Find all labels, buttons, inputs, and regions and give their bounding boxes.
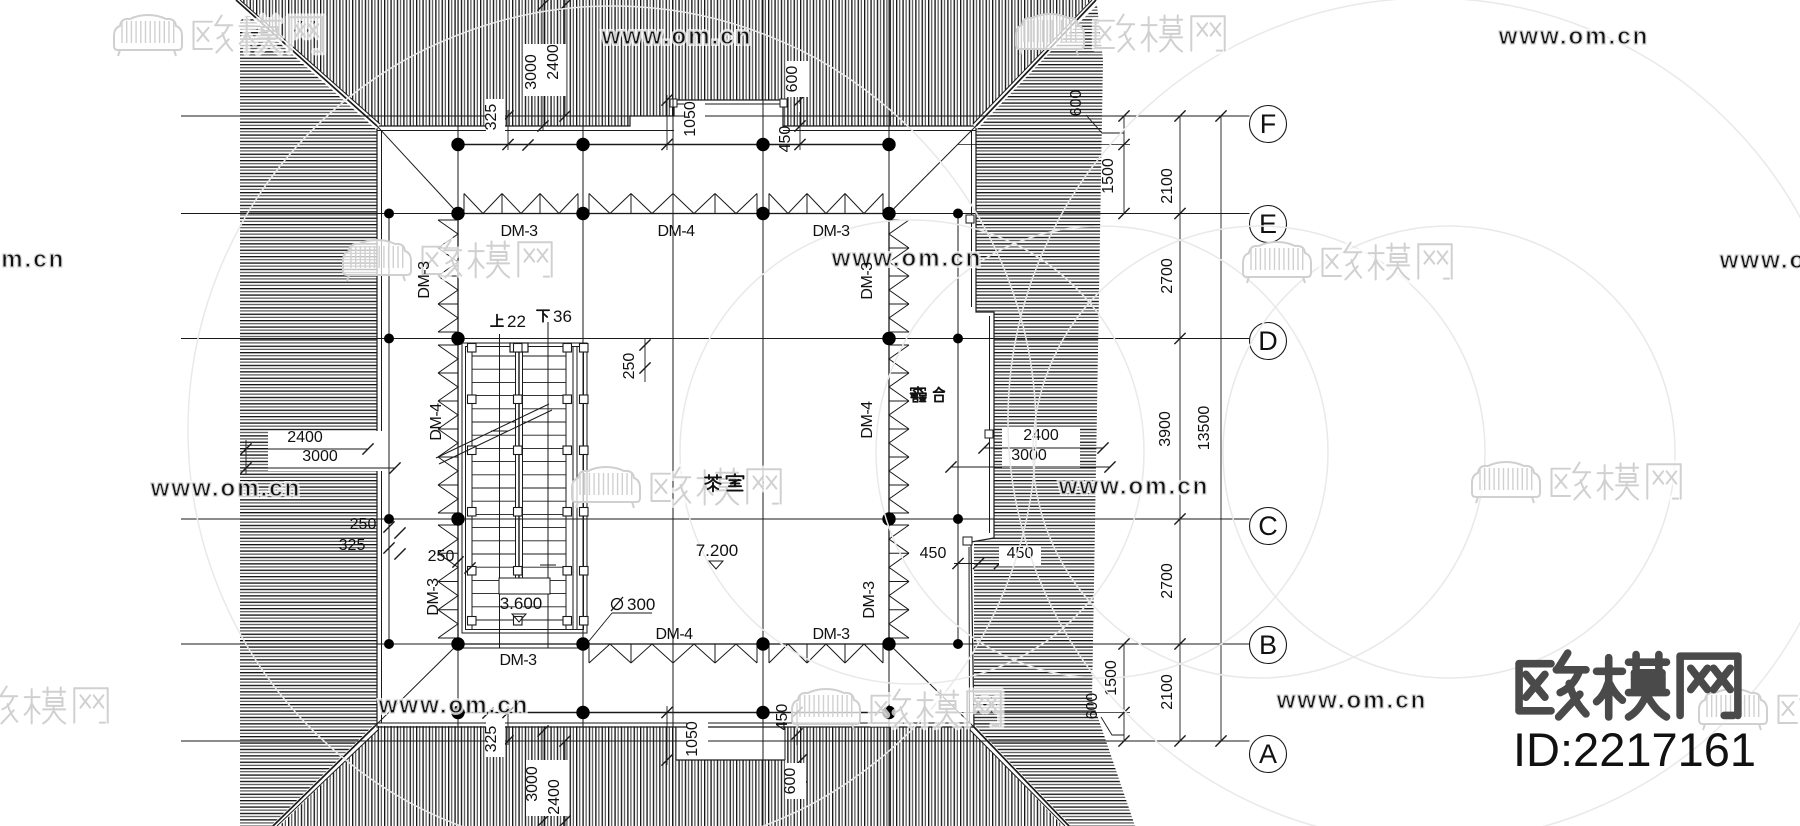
roof left band hatch (240, 13, 377, 826)
svg-text:2100: 2100 (1159, 674, 1176, 710)
svg-text:DM-4: DM-4 (655, 626, 693, 643)
top 600 dim (799, 68, 801, 104)
svg-text:2700: 2700 (1159, 563, 1176, 599)
svg-text:www.om.cn: www.om.cn (1498, 23, 1649, 50)
svg-text:www.om.cn: www.om.cn (150, 475, 301, 502)
svg-text:www.om.cn: www.om.cn (1276, 687, 1427, 714)
svg-text:DM-4: DM-4 (657, 223, 695, 240)
svg-text:D: D (1258, 326, 1278, 356)
DM-3 door top-right (768, 194, 770, 214)
svg-text:3900: 3900 (1157, 411, 1174, 447)
svg-text:3000: 3000 (302, 448, 338, 465)
DM-3 door bottom-right (768, 644, 770, 663)
svg-text:600: 600 (782, 768, 799, 795)
horizontal grid lines F E D C B A (181, 115, 1250, 117)
hip top-right (975, 0, 1095, 127)
dim chain 2 (1179, 116, 1181, 741)
top 3000/2400 dims (542, 0, 544, 131)
svg-text:2400: 2400 (287, 429, 323, 446)
svg-text:DM-4: DM-4 (428, 403, 445, 441)
bottom 450 dim (796, 703, 798, 745)
vertical grid lines (457, 0, 459, 826)
DM-3 door left C-B (438, 524, 458, 526)
svg-text:250: 250 (621, 353, 638, 380)
stair break line (436, 404, 549, 458)
DM-4 door bottom-mid (588, 644, 590, 663)
terrace top rail (458, 144, 889, 146)
top eave double line with notch (377, 100, 976, 126)
svg-text:325: 325 (483, 726, 500, 753)
bottom 600 dim (800, 755, 802, 792)
stair center wall (515, 352, 517, 578)
svg-text:DM-3: DM-3 (499, 652, 537, 669)
wall extension lines to dim chain (958, 144, 1130, 146)
250 dim above stair (644, 339, 646, 382)
svg-text:DM-3: DM-3 (812, 626, 850, 643)
DM-3 door right C-B (889, 524, 909, 526)
right eave stepped double line (971, 126, 994, 727)
svg-text:E: E (1259, 209, 1277, 239)
terrace bottom rail (458, 712, 889, 714)
dim chain 3 overall (1220, 116, 1222, 741)
svg-text:B: B (1259, 630, 1277, 660)
svg-text:DM-3: DM-3 (859, 262, 876, 300)
svg-text:450: 450 (920, 545, 947, 562)
left 2400/3000 dims (268, 431, 382, 471)
svg-text:DM-3: DM-3 (416, 261, 433, 299)
stair down arrow (547, 322, 549, 648)
svg-text:ID:2217161: ID:2217161 (1513, 723, 1756, 776)
column dots (384, 138, 963, 719)
svg-text:600: 600 (784, 66, 801, 93)
dim chain 1 (1123, 116, 1125, 214)
svg-text:www.om.cn: www.om.cn (831, 245, 982, 272)
top 450 dim (799, 112, 801, 150)
svg-text:DM-3: DM-3 (425, 578, 442, 616)
roof top band hatch (236, 0, 1096, 126)
svg-text:www.om.cn: www.om.cn (0, 246, 65, 273)
svg-text:A: A (1259, 739, 1277, 769)
hip bottom-right (973, 728, 1067, 826)
svg-text:www.om.cn: www.om.cn (1719, 247, 1800, 274)
svg-text:300: 300 (627, 595, 655, 614)
svg-text:2700: 2700 (1159, 258, 1176, 294)
svg-text:22: 22 (507, 312, 526, 331)
DM-4 door left D-C (438, 344, 458, 346)
hip top-left (236, 0, 378, 127)
top 325 dim (507, 110, 509, 150)
roof bottom band hatch (273, 726, 1069, 826)
svg-text:3000: 3000 (524, 766, 541, 802)
svg-text:2400: 2400 (1023, 427, 1059, 444)
stair label 上22 (491, 315, 503, 327)
svg-text:1050: 1050 (684, 721, 701, 757)
svg-text:DM-3: DM-3 (812, 223, 850, 240)
stair up arrow (499, 334, 501, 648)
right 2400/3000 dims (1002, 428, 1080, 468)
svg-text:DM-3: DM-3 (861, 581, 878, 619)
svg-text:13500: 13500 (1196, 406, 1213, 451)
svg-text:3.600: 3.600 (500, 594, 543, 613)
terrace colonnade lines (388, 214, 390, 645)
brand logo 欧模网 (1519, 653, 1586, 717)
roof right band hatch (974, 5, 1135, 826)
bottom wall inner line (stair segment) (458, 647, 583, 649)
svg-text:325: 325 (339, 537, 366, 554)
svg-text:250: 250 (350, 516, 377, 533)
svg-text:2100: 2100 (1159, 168, 1176, 204)
svg-text:600: 600 (1084, 693, 1101, 720)
DM-3 door top-left (463, 194, 465, 214)
bottom 1050 dim (666, 706, 668, 765)
DM-4 door right D-C (889, 344, 909, 346)
svg-text:C: C (1258, 511, 1278, 541)
svg-text:2400: 2400 (546, 779, 563, 815)
watermark logos (114, 15, 182, 56)
svg-text:450: 450 (777, 126, 794, 153)
bottom 325 dim (507, 706, 509, 745)
left eave double line (376, 126, 378, 726)
svg-text:450: 450 (774, 704, 791, 731)
svg-text:2400: 2400 (545, 44, 562, 80)
DM-3 door left E-D (438, 219, 458, 221)
svg-text:www.om.cn: www.om.cn (601, 23, 752, 50)
svg-text:1500: 1500 (1100, 158, 1117, 194)
stair treads (472, 356, 566, 620)
hip bottom-left (275, 727, 376, 826)
stair bottom landing (499, 578, 550, 594)
svg-text:7.200: 7.200 (696, 541, 739, 560)
svg-text:250: 250 (428, 548, 455, 565)
svg-text:DM-4: DM-4 (859, 401, 876, 439)
svg-text:325: 325 (483, 104, 500, 131)
svg-text:1050: 1050 (682, 101, 699, 137)
stair posts (468, 344, 589, 626)
stair enclosure (462, 343, 587, 633)
top 1050 dim (666, 95, 668, 150)
svg-text:36: 36 (553, 307, 572, 326)
DM-3 door right E-D (889, 219, 909, 221)
bottom eave double line (375, 726, 974, 728)
column dia leader (589, 613, 612, 641)
stair label 下36 (537, 310, 549, 322)
svg-text:3000: 3000 (523, 54, 540, 90)
grid bubbles (1250, 106, 1287, 143)
room wall rectangle (458, 214, 889, 645)
stair stringers (471, 347, 473, 629)
svg-text:DM-3: DM-3 (500, 223, 538, 240)
DM-4 door top-mid (588, 194, 590, 214)
room label 茶室 (705, 475, 721, 491)
svg-text:www.om.cn: www.om.cn (378, 692, 529, 719)
svg-text:3000: 3000 (1011, 447, 1047, 464)
svg-text:600: 600 (1068, 90, 1085, 117)
svg-text:F: F (1260, 109, 1277, 139)
svg-text:www.om.cn: www.om.cn (1058, 473, 1209, 500)
terrace label 露台 (910, 387, 925, 402)
bottom 3000/2400 dims (542, 727, 544, 826)
450 450 dims (951, 563, 1003, 565)
bottom eave notch (676, 727, 785, 760)
